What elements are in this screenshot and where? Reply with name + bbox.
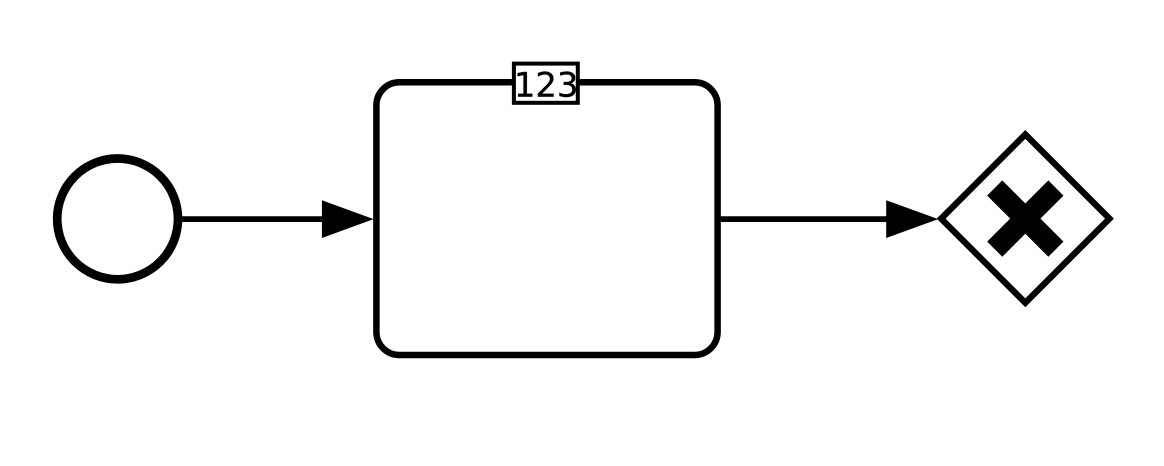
wire sequence flow 1 — [181, 216, 326, 222]
task rounded rectangle — [376, 82, 717, 355]
exclusive gateway diamond — [941, 134, 1109, 302]
gateway X marker — [995, 188, 1056, 249]
arrowhead 2 — [886, 200, 938, 238]
arrowhead 1 — [322, 200, 374, 238]
label text 123 — [518, 72, 576, 98]
label box 123 — [514, 64, 578, 103]
start event circle — [57, 159, 178, 280]
wire sequence flow 2 — [718, 216, 889, 222]
